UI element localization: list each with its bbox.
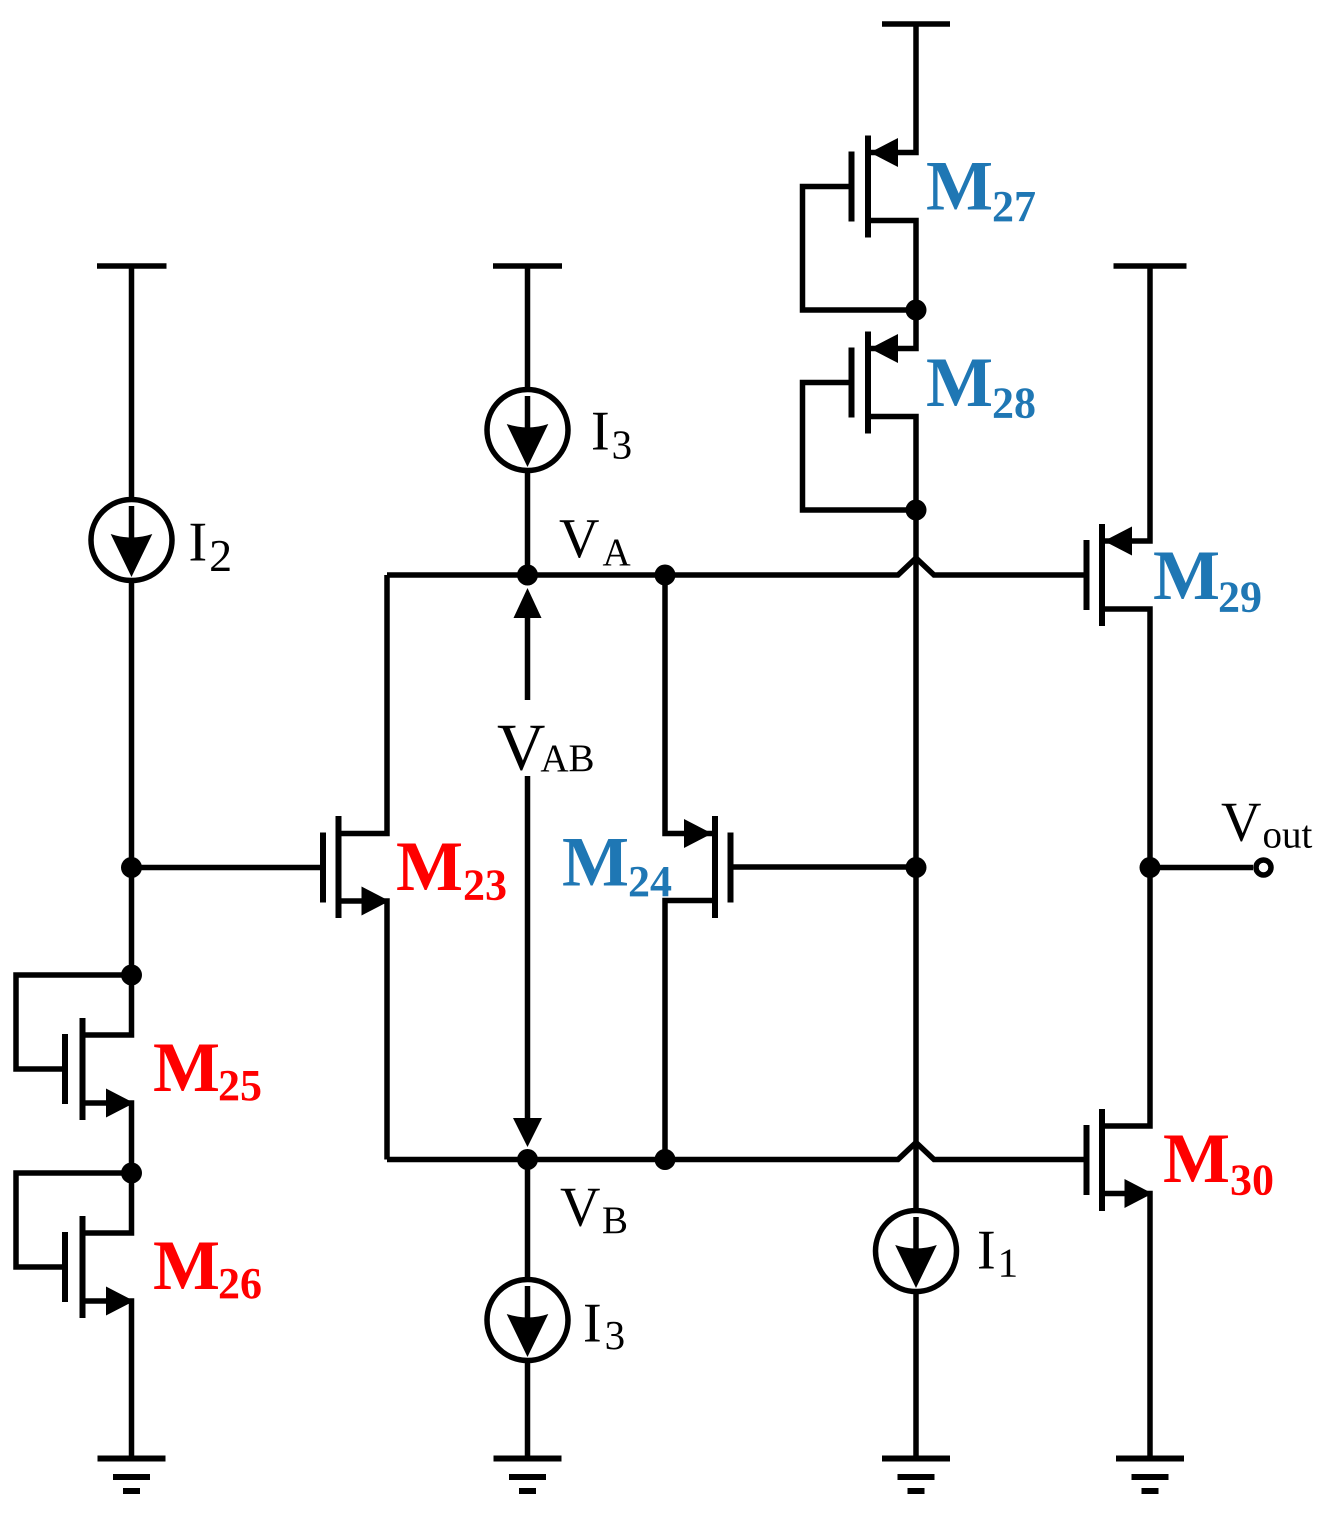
transistor M25 bbox=[16, 975, 132, 1173]
node Vout dot bbox=[1140, 857, 1161, 878]
I1 arrowhead bbox=[895, 1245, 937, 1288]
V_AB up arrow bbox=[514, 588, 542, 618]
ground mid bbox=[494, 1459, 562, 1492]
wire node B to I3 bottom bbox=[525, 1160, 531, 1280]
terminal Vout open circle bbox=[1256, 860, 1271, 875]
ground left bbox=[98, 1459, 166, 1492]
M28 source arrow bbox=[870, 334, 898, 363]
M25 source arrow bbox=[106, 1089, 134, 1118]
node M27 drain dot bbox=[906, 300, 927, 321]
node M24 gate junction bbox=[906, 857, 927, 878]
wire I2 to M25 bbox=[129, 582, 135, 976]
node A dot M24 branch bbox=[655, 565, 676, 586]
current source I1 bbox=[876, 1211, 957, 1292]
M29 source arrow bbox=[1104, 527, 1132, 556]
current source I3 bottom bbox=[487, 1280, 568, 1361]
node A wire V_A bbox=[387, 558, 1086, 575]
node M28 drain dot bbox=[906, 500, 927, 521]
V_AB down arrow bbox=[513, 1118, 542, 1147]
current source I2 bbox=[91, 500, 172, 581]
node M25 drain bbox=[121, 965, 142, 986]
wire Vout bbox=[1150, 865, 1253, 871]
power rail VDD right bbox=[1114, 263, 1187, 269]
wire I3 bottom to ground bbox=[525, 1361, 531, 1459]
node B dot M24 branch bbox=[655, 1149, 676, 1170]
node B wire V_B bbox=[387, 1143, 1086, 1160]
transistor M23 bbox=[323, 575, 387, 1160]
ground center bbox=[882, 1459, 950, 1492]
node gate M23 junction bbox=[121, 857, 142, 878]
I3 top arrowhead bbox=[507, 424, 549, 467]
current source I3 top bbox=[487, 390, 568, 471]
M24 source arrow bbox=[684, 819, 712, 848]
node A dot bbox=[517, 565, 538, 586]
wire M29 drain to M30 drain bbox=[1102, 609, 1150, 1126]
power rail VDD mid (I3 top) bbox=[493, 266, 562, 388]
V_AB wire lower bbox=[525, 776, 531, 1118]
M23 source arrow bbox=[362, 887, 390, 916]
transistor M26 bbox=[16, 1173, 132, 1458]
M30 source arrow bbox=[1125, 1179, 1153, 1208]
transistor M27 bbox=[803, 24, 917, 310]
I3 bottom arrowhead bbox=[507, 1314, 549, 1357]
transistor M24 bbox=[665, 575, 916, 1160]
power rail VDD top center bbox=[882, 21, 950, 27]
wire gate of M23 bbox=[132, 865, 324, 871]
wire M28 drain down to I1 bbox=[913, 510, 919, 1211]
wire I3 to node A bbox=[525, 473, 531, 576]
M26 source arrow bbox=[106, 1287, 134, 1316]
node B dot bbox=[517, 1149, 538, 1170]
node M26 drain bbox=[121, 1163, 142, 1184]
transistor M28 bbox=[803, 310, 917, 510]
transistor M29 bbox=[1087, 266, 1151, 626]
power rail VDD left bbox=[97, 266, 167, 499]
wire I1 to ground bbox=[913, 1292, 919, 1459]
M27 source arrow bbox=[870, 138, 898, 167]
transistor M30 bbox=[1087, 1109, 1151, 1458]
I2 arrowhead bbox=[111, 534, 153, 577]
V_AB wire upper bbox=[525, 618, 531, 700]
ground right bbox=[1116, 1459, 1184, 1492]
